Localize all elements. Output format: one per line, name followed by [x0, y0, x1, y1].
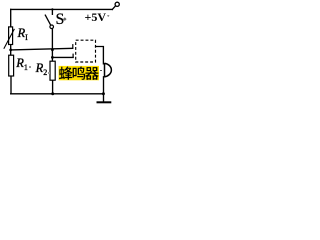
ground bar: [97, 101, 112, 103]
wire +5V terminal lead: [112, 6, 115, 10]
resistor R2 body: [50, 61, 55, 80]
resistor R1 body: [9, 55, 14, 76]
junction node: switch stub at top rail: [51, 8, 53, 10]
buzzer dome: [105, 63, 112, 77]
wire bottom rail: [11, 93, 104, 95]
label RT: [18, 27, 28, 42]
wire box output to buzzer: [96, 47, 105, 64]
junction node: R2 at bottom rail: [51, 92, 54, 95]
thermistor RT body: [9, 27, 13, 45]
+5V terminal circle: [115, 2, 119, 6]
wire left branch upper: [10, 9, 12, 27]
wire switch stub from top rail: [51, 9, 53, 14]
wire left branch middle: [10, 45, 12, 56]
wire left branch lower (R1 bottom lead): [10, 76, 12, 94]
label +5V: [85, 11, 107, 23]
label R1: [16, 57, 28, 72]
artifact mark after S: [63, 17, 67, 21]
char 蜂: [59, 67, 73, 80]
label S: [56, 12, 65, 28]
char 鸣: [73, 67, 86, 80]
dashed module box: [76, 40, 96, 62]
buzzer flat bar: [104, 63, 106, 77]
switch S contact circle: [50, 25, 54, 29]
junction node: divider tap at left branch: [9, 49, 12, 52]
char 器: [85, 67, 99, 80]
switch S arm: [45, 15, 51, 25]
wire node-A horizontal (divider tap to box input 1): [11, 48, 73, 50]
wire switch to R2: [51, 29, 53, 62]
box input pin 1 tick: [72, 44, 74, 49]
artifact mark after R1: [29, 66, 31, 68]
artifact mark before buzzer: [100, 70, 102, 72]
junction node: switch column at box input 2: [51, 56, 54, 59]
artifact mark after +5V: [107, 15, 110, 18]
yellow highlight behind buzzer label: [59, 66, 99, 80]
artifact mark after R2: [48, 72, 50, 74]
wire buzzer bottom lead to ground: [104, 77, 105, 102]
thermistor RT diagonal strike: [4, 29, 15, 49]
junction node: buzzer/ground at bottom rail: [102, 92, 105, 95]
box input pin 2 tick: [72, 54, 74, 58]
wire box input 2: [52, 56, 73, 58]
junction node: switch column at tap wire: [51, 48, 54, 51]
wire top rail (+5V rail): [11, 8, 113, 10]
label R2: [36, 62, 48, 77]
wire R2 bottom lead: [52, 80, 54, 94]
